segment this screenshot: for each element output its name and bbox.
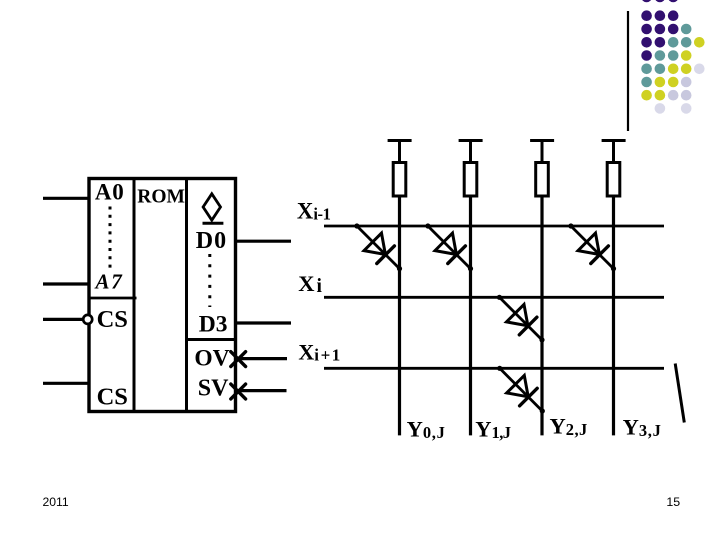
wire: output D3 [236, 321, 292, 324]
wire: address input A0 [43, 197, 89, 200]
wire: column line Y3 [612, 196, 615, 435]
pull-up resistor R1 (column Y0) [388, 141, 412, 197]
svg-text:ROM: ROM [137, 187, 185, 208]
dotted line A0..A7 [109, 207, 112, 272]
diode D3 (row Xi-1, col Y3) [568, 223, 616, 271]
diode D5 (row Xi+1, col Y2) [497, 366, 545, 414]
inversion bubble on CS [83, 315, 92, 324]
open-collector output symbol (diamond) [203, 194, 224, 224]
ROM internal divider (address section) [133, 179, 136, 412]
pull-up resistor R3 (column Y2) [530, 141, 554, 197]
svg-text:D3: D3 [199, 311, 228, 337]
ROM internal divider (data section) [185, 179, 188, 412]
wire: output D0 [236, 240, 292, 243]
X mark on OV output [231, 352, 246, 367]
svg-text:OV: OV [194, 345, 229, 371]
stray pen mark (diagonal) bottom right [675, 364, 684, 423]
wire: row line Xi-1 [324, 225, 664, 228]
wire: address input A7 [43, 282, 89, 285]
wire: output SV [236, 389, 287, 392]
svg-text:CS: CS [97, 306, 128, 333]
wire: row line Xi [324, 296, 664, 299]
svg-text:2011: 2011 [43, 495, 69, 509]
ROM chip U1 outline [89, 179, 236, 412]
wire: column line Y2 [540, 196, 543, 435]
svg-text:CS: CS [97, 383, 128, 410]
wire: CS input to bubble [43, 318, 83, 321]
diode D4 (row Xi, col Y2) [497, 295, 545, 343]
pull-up resistor R4 (column Y3) [602, 141, 626, 197]
X mark on SV output [231, 384, 246, 399]
wire: CS2 input [43, 382, 89, 385]
wire: output OV [236, 357, 288, 360]
vertical separator line (top right) [627, 11, 629, 131]
wire: row line Xi+1 [324, 367, 664, 370]
diode D1 (row Xi-1, col Y0) [354, 223, 402, 271]
svg-text:A0: A0 [95, 180, 125, 205]
svg-text:15: 15 [666, 495, 680, 509]
diode D2 (row Xi-1, col Y1) [425, 223, 473, 271]
pull-up resistor R2 (column Y1) [459, 141, 483, 197]
divider under A7 [89, 297, 137, 300]
svg-text:A7: A7 [94, 270, 124, 294]
divider above OV [187, 338, 236, 341]
dotted line D0..D3 [208, 254, 211, 307]
wire: column line Y0 [398, 196, 401, 435]
svg-text:D0: D0 [196, 228, 227, 254]
decorative dot ornament (template graphic, not labelled individually) [641, 0, 704, 114]
wire: column line Y1 [469, 196, 472, 435]
svg-text:SV: SV [198, 376, 229, 402]
